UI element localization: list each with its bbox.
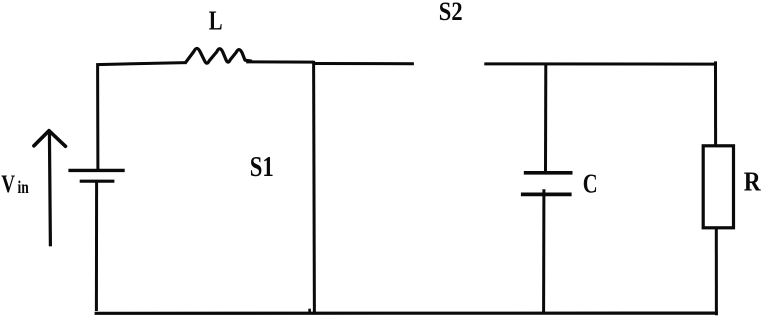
svg-text:C: C [583,168,598,198]
svg-text:R: R [744,166,762,197]
svg-text:L: L [209,5,223,35]
svg-text:S2: S2 [439,0,463,26]
svg-text:S1: S1 [250,151,274,183]
svg-text:V: V [1,171,15,198]
svg-text:in: in [18,177,29,197]
